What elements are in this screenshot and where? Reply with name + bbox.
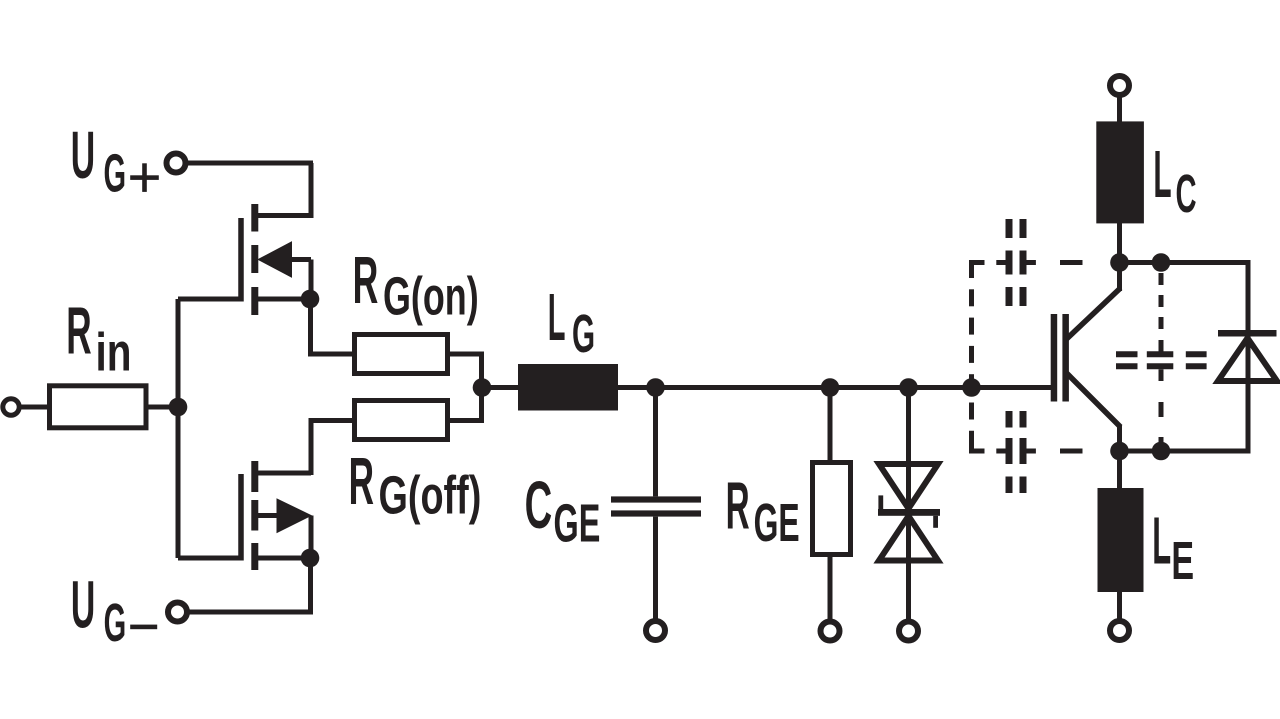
- svg-text:G: G: [104, 594, 127, 654]
- svg-text:R: R: [726, 469, 750, 544]
- svg-text:R: R: [353, 243, 379, 318]
- svg-text:G: G: [104, 144, 127, 204]
- svg-text:R: R: [349, 445, 374, 519]
- svg-text:G(on): G(on): [383, 265, 479, 326]
- svg-text:GE: GE: [754, 494, 800, 554]
- svg-text:L: L: [1153, 136, 1171, 211]
- svg-text:C: C: [525, 468, 553, 543]
- svg-text:E: E: [1171, 530, 1194, 591]
- svg-text:C: C: [1176, 165, 1197, 225]
- svg-text:U: U: [71, 119, 95, 194]
- svg-text:in: in: [96, 323, 132, 383]
- svg-text:L: L: [548, 279, 566, 354]
- svg-text:L: L: [1152, 504, 1171, 578]
- svg-text:R: R: [66, 295, 91, 369]
- svg-text:G: G: [572, 305, 595, 364]
- svg-text:G(off): G(off): [379, 465, 482, 525]
- svg-text:GE: GE: [554, 494, 601, 553]
- svg-text:U: U: [71, 568, 95, 643]
